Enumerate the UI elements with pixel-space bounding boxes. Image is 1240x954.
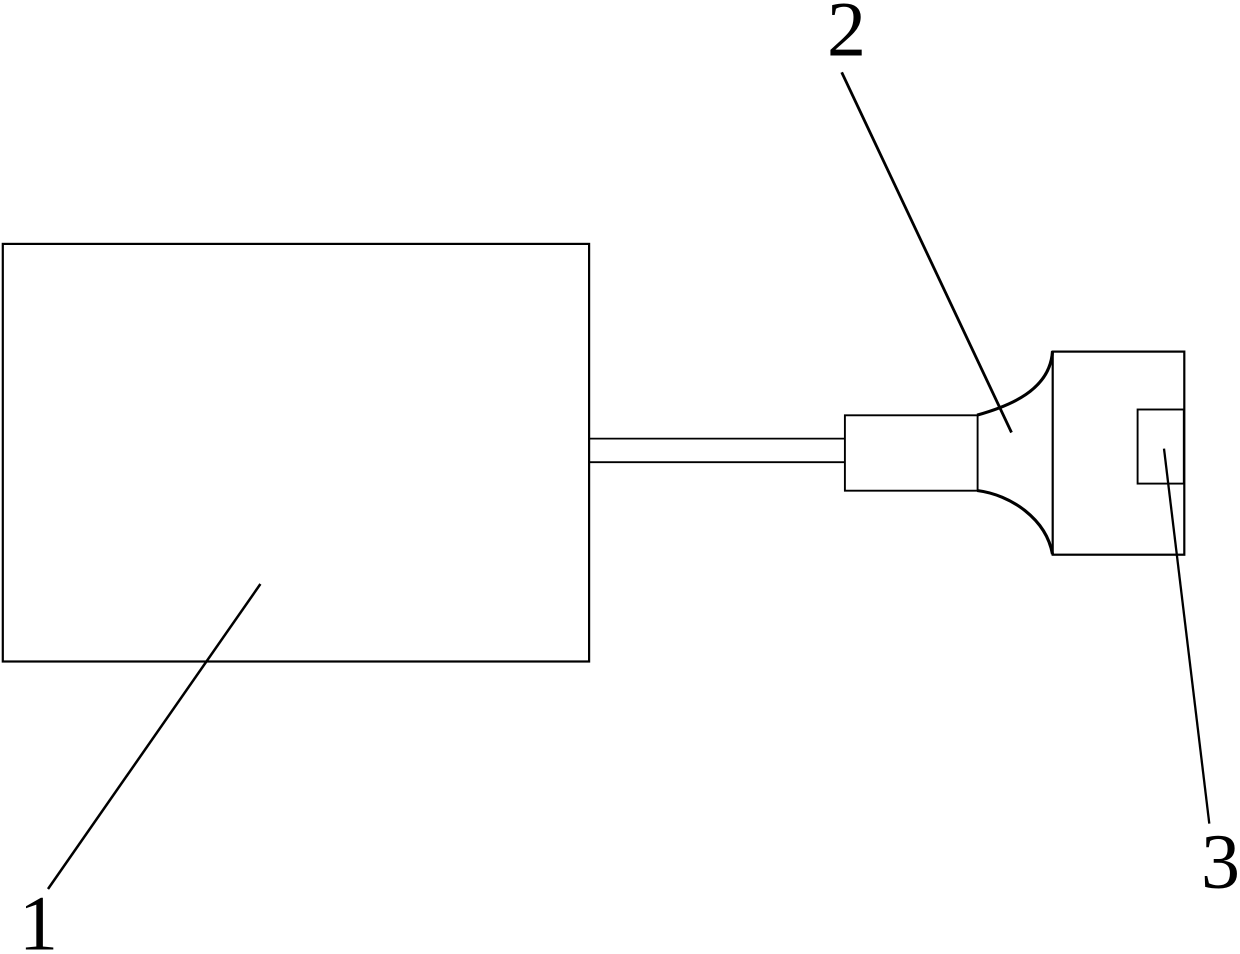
horn flare bottom curve xyxy=(977,491,1052,555)
leader line 2 xyxy=(842,72,1012,432)
wire rod bottom line xyxy=(589,461,846,463)
svg-text:2: 2 xyxy=(827,0,866,72)
svg-text:1: 1 xyxy=(19,880,58,954)
generator housing box 1 xyxy=(3,244,589,662)
horn flare top curve xyxy=(977,351,1052,415)
notch recess 3 xyxy=(1138,410,1184,484)
leader line 3 xyxy=(1164,449,1209,824)
leader line 1 xyxy=(48,584,260,889)
svg-text:3: 3 xyxy=(1201,818,1240,905)
wire rod top line xyxy=(589,438,846,440)
transducer back block 2 xyxy=(845,415,978,490)
horn head block xyxy=(1053,352,1185,555)
